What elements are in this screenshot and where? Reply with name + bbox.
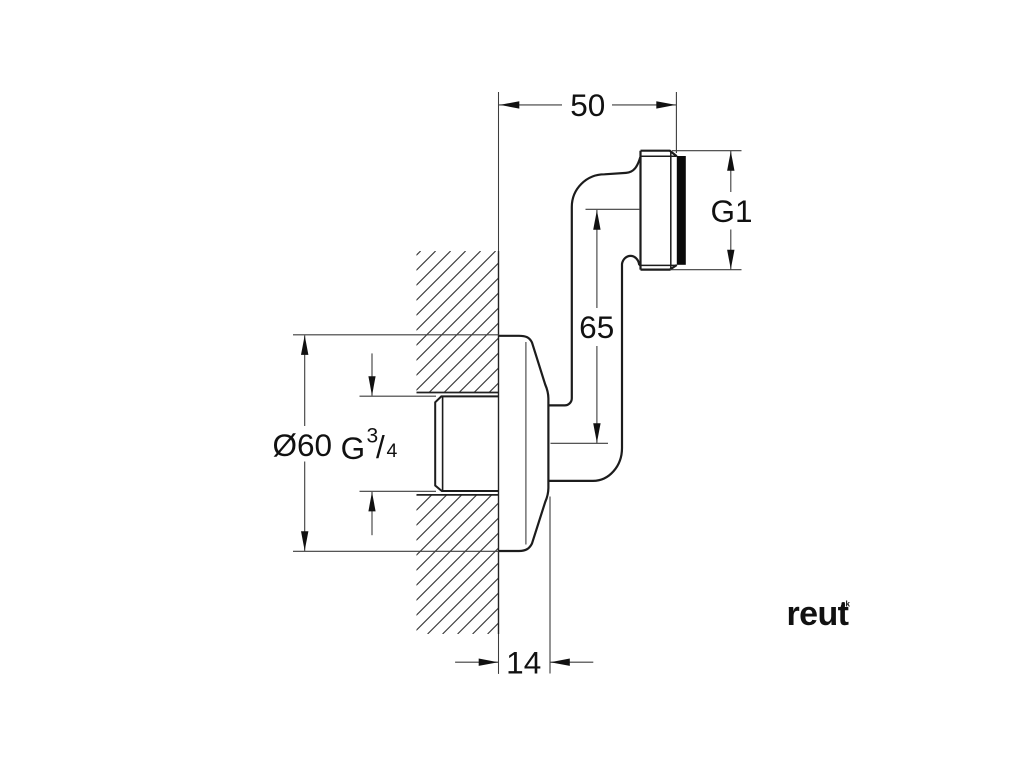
threaded stub G3/4 <box>435 396 498 491</box>
svg-text:4: 4 <box>387 440 398 462</box>
pipe outline upper-left <box>548 157 640 405</box>
wall hatch <box>38 251 871 634</box>
svg-text:14: 14 <box>506 645 541 681</box>
union nut G1 <box>641 151 677 270</box>
svg-text:Ø60: Ø60 <box>273 427 333 463</box>
wall face line <box>498 92 500 251</box>
dimension 50: arrows <box>500 101 520 108</box>
gasket (black seal ring) <box>677 156 686 265</box>
dimension 50: extension line right <box>675 92 677 153</box>
dimension G3/4: bottom arrow <box>371 492 373 535</box>
dimension G1: extension lines <box>672 150 742 152</box>
dimension G1: arrows <box>727 151 734 171</box>
svg-text:/: / <box>376 429 385 465</box>
escutcheon bell <box>499 336 549 551</box>
wall hole top edge <box>417 392 499 394</box>
dimension G3/4: top arrow <box>371 353 373 395</box>
dimension 65: arrows <box>593 210 600 230</box>
svg-text:sk: sk <box>841 600 850 609</box>
dimension G3/4: extension lines <box>360 395 437 397</box>
dimension G1: dimension line <box>730 151 732 270</box>
svg-text:reut: reut <box>787 595 849 633</box>
pipe outline lower-right <box>548 256 640 481</box>
dimension D60: arrows <box>301 335 308 355</box>
dimension 50: dimension line <box>499 104 676 106</box>
dimension 14: dimension line + outside arrows <box>455 661 593 663</box>
svg-text:G: G <box>341 430 366 466</box>
escutcheon front rim line <box>525 342 527 545</box>
dimension 65: extension lines <box>586 208 641 210</box>
wall hole bottom edge <box>417 494 499 496</box>
svg-text:65: 65 <box>579 309 614 345</box>
dimension 65: dimension line <box>596 210 598 443</box>
dimension D60: dimension line <box>304 335 306 551</box>
dimension D60: extension lines <box>293 334 499 336</box>
svg-text:G1: G1 <box>711 193 753 229</box>
svg-text:50: 50 <box>570 87 605 123</box>
dimension 14: extension line right <box>549 497 551 674</box>
